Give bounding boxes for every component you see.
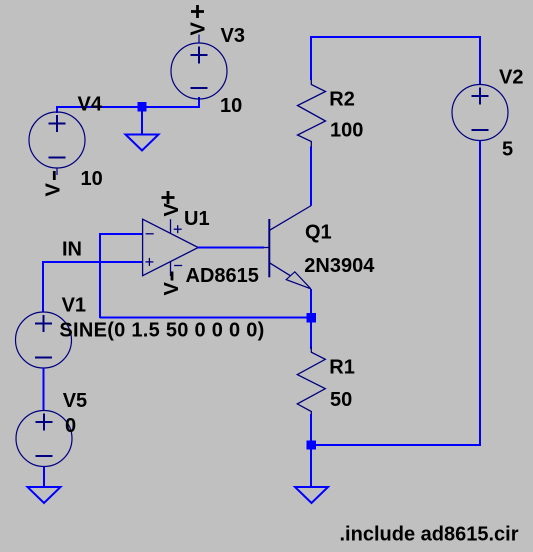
svg-text:AD8615: AD8615 (186, 265, 259, 287)
svg-text:V: V (161, 203, 183, 217)
svg-text:Q1: Q1 (305, 222, 332, 244)
svg-text:V: V (161, 282, 183, 296)
node junction emitter / R1 / feedback (307, 313, 316, 322)
transistor Q1 (264, 206, 312, 289)
svg-text:V5: V5 (63, 390, 87, 412)
wire R2 top to rail (310, 36, 312, 80)
svg-text:.include ad8615.cir: .include ad8615.cir (340, 524, 519, 546)
svg-text:V2: V2 (499, 67, 523, 89)
wire junction to ground 1 (141, 107, 143, 135)
svg-text:2N3904: 2N3904 (304, 255, 375, 277)
svg-text:100: 100 (330, 120, 363, 142)
wire IN net horizontal (43, 261, 143, 263)
voltage source V2 (452, 85, 508, 141)
wire V3 bottom stub (198, 97, 200, 108)
wire feedback bottom horizontal to emitter node (100, 317, 311, 319)
wire node to ground 3 (310, 445, 312, 487)
wire feedback vertical (99, 233, 101, 318)
svg-text:10: 10 (220, 95, 242, 117)
wire V2 top stub (479, 36, 481, 85)
voltage source V4 (29, 112, 85, 175)
op-amp U1 (143, 219, 199, 276)
wire op-amp output to Q1 base (198, 247, 264, 249)
svg-text:SINE(0 1.5 50 0 0 0 0): SINE(0 1.5 50 0 0 0 0) (59, 320, 264, 342)
wire V1 bottom to V5 top (43, 368, 45, 411)
svg-text:0: 0 (65, 415, 76, 437)
wire V5 bottom to ground 2 (43, 467, 45, 488)
voltage source V3 (171, 35, 227, 100)
svg-text:50: 50 (330, 389, 352, 411)
wire V2 bottom long vertical (479, 141, 481, 447)
wire node to R1 top (310, 318, 312, 349)
svg-text:V: V (43, 183, 65, 197)
voltage source V5 (16, 411, 72, 467)
svg-text:10: 10 (81, 168, 103, 190)
svg-text:V1: V1 (62, 295, 86, 317)
svg-text:V4: V4 (78, 94, 103, 116)
wire R1 bottom to node (310, 414, 312, 445)
ground GND3 (295, 487, 328, 503)
svg-text:5: 5 (502, 139, 513, 161)
node junction at ground tap (137, 102, 146, 111)
wire Q1 collector up to R2 (310, 147, 312, 206)
wire top rail horizontal (311, 36, 481, 38)
svg-text:IN: IN (62, 239, 82, 261)
wire V4 top to V3 bottom horizontal (56, 106, 200, 108)
node junction R1 bottom / V2 return / ground (307, 440, 316, 449)
wire feedback top horizontal to inverting input (100, 233, 143, 235)
svg-text:U1: U1 (184, 208, 210, 230)
svg-text:V3: V3 (221, 25, 245, 47)
svg-text:R1: R1 (329, 357, 355, 379)
voltage source V1 (16, 312, 72, 368)
wire Q1 emitter down to node (310, 289, 312, 318)
resistor R1 (297, 347, 325, 417)
wire bottom horizontal to R1 node (311, 444, 481, 446)
svg-text:V: V (188, 22, 210, 36)
wire V1 top stub (42, 261, 44, 312)
resistor R2 (298, 79, 326, 147)
ground GND2 (28, 487, 61, 503)
ground GND1 (126, 135, 159, 151)
wire V4 top stub (56, 106, 58, 113)
svg-text:R2: R2 (329, 89, 355, 111)
